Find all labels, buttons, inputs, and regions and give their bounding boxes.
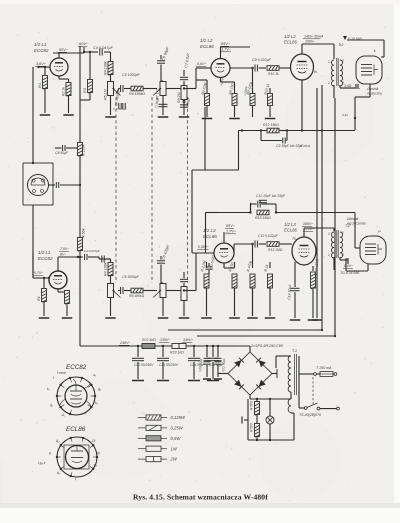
svg-text:3,41: 3,41 xyxy=(342,113,348,117)
svg-text:Ih: Ih xyxy=(314,70,317,74)
svg-text:1/2 L3: 1/2 L3 xyxy=(284,222,296,227)
svg-text:TG-6-W-666: TG-6-W-666 xyxy=(340,271,359,275)
svg-text:C4 0,047µF: C4 0,047µF xyxy=(93,46,114,50)
svg-text:R9 2M: R9 2M xyxy=(177,91,181,103)
svg-text:ECC82: ECC82 xyxy=(34,48,49,53)
svg-text:2: 2 xyxy=(341,59,344,63)
svg-text:60V~: 60V~ xyxy=(79,41,89,46)
svg-text:R6 180kΩ: R6 180kΩ xyxy=(129,294,145,298)
svg-text:3,6V~: 3,6V~ xyxy=(36,62,47,66)
svg-text:R1: R1 xyxy=(37,83,42,88)
svg-text:g₁: g₁ xyxy=(50,403,53,407)
svg-text:ECL86: ECL86 xyxy=(284,228,297,233)
svg-text:R4 100k: R4 100k xyxy=(104,262,108,276)
svg-text:R 56k: R 56k xyxy=(82,228,86,238)
svg-text:1,7V~: 1,7V~ xyxy=(226,230,237,234)
svg-text:Rys. 4.15. Schemat wzmacniacza: Rys. 4.15. Schemat wzmacniacza W-480f xyxy=(133,493,268,502)
svg-text:C8 50µF: C8 50µF xyxy=(55,151,69,155)
svg-text:C5 1000pF: C5 1000pF xyxy=(122,275,140,279)
svg-text:C22 50/250V: C22 50/250V xyxy=(134,363,154,367)
svg-text:1/2 L2: 1/2 L2 xyxy=(284,34,296,39)
svg-text:0,125W: 0,125W xyxy=(171,415,186,420)
svg-text:C5 1000pF: C5 1000pF xyxy=(122,73,141,77)
svg-text:f centr: f centr xyxy=(57,371,67,375)
svg-text:C23 50/250V: C23 50/250V xyxy=(159,363,179,367)
svg-text:a₁: a₁ xyxy=(62,413,65,417)
svg-text:Kp: Kp xyxy=(96,451,100,455)
svg-text:R10 1k: R10 1k xyxy=(268,72,279,76)
svg-text:1: 1 xyxy=(328,232,330,236)
svg-text:·····: ····· xyxy=(55,280,59,283)
svg-text:R 560: R 560 xyxy=(250,401,254,410)
svg-text:0,58V~: 0,58V~ xyxy=(198,245,209,249)
svg-text:Gt: Gt xyxy=(92,439,95,443)
svg-text:240V~: 240V~ xyxy=(119,341,131,345)
svg-text:ECL86: ECL86 xyxy=(200,44,214,49)
svg-text:C 0,022µF: C 0,022µF xyxy=(113,107,127,111)
svg-text:0,6V~: 0,6V~ xyxy=(197,62,207,66)
svg-text:5,6V~: 5,6V~ xyxy=(344,264,353,268)
svg-text:R1: R1 xyxy=(37,296,41,301)
svg-text:85V~: 85V~ xyxy=(221,42,231,46)
svg-text:Głośnik: Głośnik xyxy=(347,217,359,221)
svg-text:g: g xyxy=(49,451,51,455)
svg-text:7,5V~: 7,5V~ xyxy=(60,247,69,251)
svg-text:R2 1k: R2 1k xyxy=(62,87,66,96)
svg-text:C12 15pF lub 33pF: C12 15pF lub 33pF xyxy=(256,194,286,198)
svg-text:R 47kΩ: R 47kΩ xyxy=(300,144,311,148)
svg-text:·····: ····· xyxy=(56,67,60,70)
svg-text:8V~: 8V~ xyxy=(60,253,66,257)
svg-text:TS-40(2B)676: TS-40(2B)676 xyxy=(299,413,321,417)
svg-text:R18 15kΩ: R18 15kΩ xyxy=(255,216,271,220)
svg-text:ECL86: ECL86 xyxy=(284,40,297,45)
svg-text:1/2 L1: 1/2 L1 xyxy=(38,250,51,255)
svg-text:1/2 L1: 1/2 L1 xyxy=(34,42,47,47)
svg-text:2W: 2W xyxy=(170,457,178,462)
svg-text:3,4Ω: 3,4Ω xyxy=(344,84,352,88)
svg-text:0,7V~: 0,7V~ xyxy=(34,271,43,275)
svg-text:0,5W: 0,5W xyxy=(171,436,182,441)
svg-text:Głośnik: Głośnik xyxy=(367,87,379,91)
svg-text:65V~: 65V~ xyxy=(59,48,69,52)
svg-text:180V~: 180V~ xyxy=(303,222,313,226)
svg-text:muzyczny: muzyczny xyxy=(367,92,382,96)
svg-text:R 220k: R 220k xyxy=(82,143,86,156)
svg-text:R4 100k: R4 100k xyxy=(104,61,108,75)
svg-text:2: 2 xyxy=(341,231,344,235)
svg-text:ECC82: ECC82 xyxy=(38,256,53,261)
svg-text:T 250 mA: T 250 mA xyxy=(316,366,332,370)
svg-text:130V~: 130V~ xyxy=(160,338,171,342)
svg-text:wg życzenia: wg życzenia xyxy=(347,222,366,226)
svg-text:C4 0,047µF: C4 0,047µF xyxy=(84,249,100,253)
svg-text:f,g₃,k: f,g₃,k xyxy=(38,461,46,465)
svg-text:1W: 1W xyxy=(171,446,178,451)
svg-text:k₁: k₁ xyxy=(47,387,50,391)
svg-text:Γ: Γ xyxy=(90,471,92,475)
svg-text:1,7V~: 1,7V~ xyxy=(221,48,232,52)
svg-text:·····: ····· xyxy=(221,253,225,256)
svg-text:1: 1 xyxy=(328,81,330,85)
svg-text:R 560: R 560 xyxy=(250,423,254,432)
svg-text:160V~: 160V~ xyxy=(305,40,315,44)
svg-text:340V~: 340V~ xyxy=(183,338,194,342)
svg-text:R22 3kΩ: R22 3kΩ xyxy=(142,338,156,342)
svg-text:R23 1kΩ: R23 1kΩ xyxy=(170,351,184,355)
svg-text:C9 0,022µF: C9 0,022µF xyxy=(252,58,272,62)
svg-text:Ł: Ł xyxy=(374,48,376,53)
svg-text:1/2 L2: 1/2 L2 xyxy=(200,38,213,43)
svg-text:R5 1M: R5 1M xyxy=(104,88,108,100)
svg-text:3: 3 xyxy=(342,253,344,257)
svg-text:C13 0,022µF: C13 0,022µF xyxy=(258,234,279,238)
svg-text:2×SPS-6R-250 C85: 2×SPS-6R-250 C85 xyxy=(250,344,283,348)
svg-text:ECC82: ECC82 xyxy=(66,364,87,371)
svg-text:A₁: A₁ xyxy=(56,471,60,475)
svg-text:T-1: T-1 xyxy=(292,349,297,353)
svg-text:·····: ····· xyxy=(217,68,221,71)
svg-text:85V~: 85V~ xyxy=(226,224,236,228)
svg-text:1: 1 xyxy=(328,60,330,64)
svg-text:R6 180kΩ: R6 180kΩ xyxy=(129,92,145,96)
svg-text:R12 15kΩ: R12 15kΩ xyxy=(263,123,279,127)
svg-text:R13 1MΩ: R13 1MΩ xyxy=(268,248,283,252)
svg-text:ECL86: ECL86 xyxy=(66,426,86,433)
svg-text:140V~50mA: 140V~50mA xyxy=(304,35,324,39)
svg-text:1: 1 xyxy=(328,253,330,257)
svg-text:0,25W: 0,25W xyxy=(171,426,184,431)
svg-text:Tr2: Tr2 xyxy=(338,43,344,47)
